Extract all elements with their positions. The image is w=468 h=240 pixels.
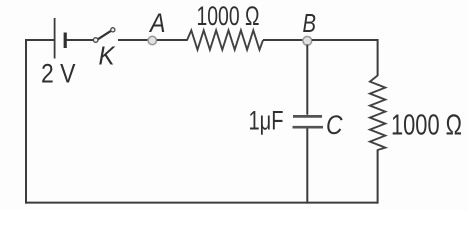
capacitor node label C [326,110,343,140]
svg-text:1000 Ω: 1000 Ω [391,110,462,142]
switch K lever arm [98,31,111,39]
battery value label 2 V [41,59,76,89]
wire top-left to battery [25,39,54,41]
capacitor C1 top plate [293,115,322,118]
switch K open contact [111,28,115,32]
wire node B to top-right corner [312,39,379,41]
svg-text:1μF: 1μF [249,106,284,136]
switch label K [99,43,116,71]
svg-text:K: K [99,43,116,71]
wire right edge upper segment [377,39,379,76]
resistor R2 1000 ohm (vertical zigzag) [370,76,385,151]
node label B [303,10,317,38]
wire resistor to node B [263,39,303,41]
wire node B down to capacitor [306,45,308,115]
svg-text:A: A [148,8,165,38]
node label A [148,8,165,38]
svg-text:1000 Ω: 1000 Ω [197,1,260,31]
capacitor value label 1uF [249,106,284,136]
wire switch to node A [118,39,148,41]
battery B1 short plate (-) [64,33,67,49]
wire node A to resistor [157,39,188,41]
battery B1 long plate (+) [54,18,56,59]
svg-text:B: B [303,10,317,38]
switch K left contact [93,38,98,43]
wire right edge lower segment [377,150,379,204]
svg-text:C: C [326,110,343,140]
wire left edge [25,40,27,204]
resistor R1 1000 ohm (horizontal zigzag) [187,30,263,50]
wire bottom [25,202,379,204]
wire battery to switch [67,39,94,41]
node A terminal [148,36,156,44]
node B terminal [303,36,312,45]
wire capacitor down to bottom [306,129,308,204]
capacitor C1 bottom plate [293,126,324,129]
resistor R2 value label 1000 ohm [391,110,462,142]
resistor R1 value label 1000 ohm [197,1,260,31]
svg-text:2 V: 2 V [41,59,76,89]
